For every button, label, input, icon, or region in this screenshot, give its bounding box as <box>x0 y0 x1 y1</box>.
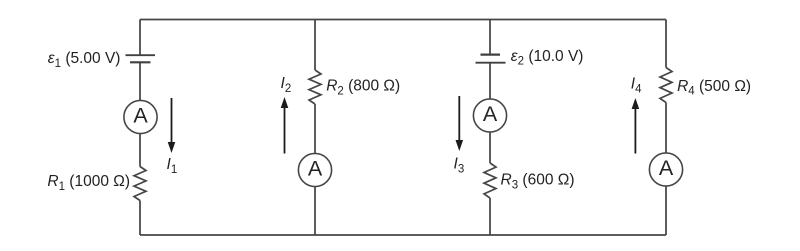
wire branch2 top segment <box>314 20 316 71</box>
svg-text:I4: I4 <box>631 76 642 96</box>
current arrow I1 (down) <box>168 98 176 153</box>
current arrow I4 (up) <box>632 98 640 154</box>
wire branch4 bottom segment <box>665 186 667 235</box>
ammeter A2 (branch2) <box>298 153 331 186</box>
wire branch3 bottom segment <box>489 198 491 235</box>
ammeter A1 (branch1) <box>124 100 157 133</box>
svg-text:ε2 (10.0 V): ε2 (10.0 V) <box>511 48 584 68</box>
svg-text:R4 (500 Ω): R4 (500 Ω) <box>677 78 751 98</box>
wire branch3 battery-to-ammeter <box>489 63 491 99</box>
battery E2 <box>476 55 506 63</box>
wire branch1 bottom segment <box>139 201 141 236</box>
svg-text:I3: I3 <box>454 156 465 176</box>
battery E1 <box>126 55 156 62</box>
wire branch1 ammeter-to-R1 <box>139 134 141 167</box>
svg-text:A: A <box>133 104 148 128</box>
current arrow I3 (down) <box>456 96 464 151</box>
svg-text:R1 (1000 Ω): R1 (1000 Ω) <box>47 173 130 193</box>
wire branch3 ammeter-to-R3 <box>489 132 491 163</box>
ammeter A4 (branch4) <box>649 153 682 186</box>
svg-text:I2: I2 <box>281 75 292 95</box>
resistor R1 <box>134 167 146 201</box>
resistor R3 <box>484 163 496 198</box>
svg-text:I1: I1 <box>167 156 178 176</box>
ammeter A3 (branch3) <box>473 99 506 132</box>
svg-text:A: A <box>659 156 674 180</box>
wire branch1 battery-to-ammeter <box>139 62 141 100</box>
svg-text:A: A <box>308 157 323 181</box>
wire branch2 R2-to-ammeter <box>314 104 316 154</box>
current arrow I2 (up) <box>281 97 289 154</box>
svg-text:A: A <box>483 102 498 126</box>
svg-text:R2 (800 Ω): R2 (800 Ω) <box>326 78 400 98</box>
wire branch4 top segment <box>665 20 667 68</box>
wire branch2 bottom segment <box>314 187 316 236</box>
svg-text:ε1 (5.00 V): ε1 (5.00 V) <box>48 50 121 70</box>
wire branch3 top segment <box>489 20 491 55</box>
svg-text:R3 (600 Ω): R3 (600 Ω) <box>501 172 575 192</box>
wire branch4 R4-to-ammeter <box>665 103 667 154</box>
wire bottom bus <box>140 234 666 236</box>
resistor R4 <box>660 68 672 103</box>
resistor R2 <box>309 70 321 104</box>
wire top bus <box>140 19 666 21</box>
wire branch1 top segment <box>139 20 141 56</box>
